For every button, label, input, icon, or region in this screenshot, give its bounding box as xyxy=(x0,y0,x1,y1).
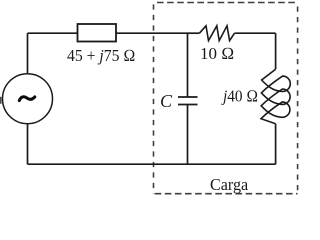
dashed load boundary box: top edge xyxy=(154,2,298,4)
svg-text:45 + j75 Ω: 45 + j75 Ω xyxy=(67,45,135,65)
wire: zigzag to top-right corner xyxy=(235,32,276,34)
wire: capacitor branch upper xyxy=(187,33,189,97)
AC source tilde symbol xyxy=(19,97,35,101)
dashed load boundary box: bottom edge xyxy=(154,193,298,195)
inductor L j40 ohm (loop coil) xyxy=(261,69,290,124)
resistor R 10 ohm (zigzag) xyxy=(199,26,234,41)
wire: bottom rail xyxy=(28,163,276,165)
dashed load boundary box: left edge xyxy=(153,3,155,194)
wire: top rail left segment xyxy=(28,32,78,34)
AC source V1 (circle) xyxy=(3,74,53,124)
wire: left vertical bottom (circle to bottom rail) xyxy=(27,124,29,165)
capacitor C plate bottom xyxy=(178,104,198,106)
wire: inductor to bottom rail xyxy=(275,124,277,164)
svg-text:j40 Ω: j40 Ω xyxy=(221,88,258,106)
svg-text:Carga: Carga xyxy=(210,174,249,194)
wire: capacitor branch lower xyxy=(187,105,189,165)
wire: right vertical down to inductor xyxy=(275,33,277,69)
svg-text:C: C xyxy=(160,91,173,111)
capacitor C plate top xyxy=(178,96,198,98)
svg-text:10 Ω: 10 Ω xyxy=(200,44,234,63)
wire: top rail middle segment (box to node) xyxy=(116,32,188,34)
resistor Z1 (box) xyxy=(78,24,117,42)
wire: node to zigzag resistor xyxy=(188,32,200,34)
scan artifact tick at left margin xyxy=(0,97,2,104)
wire: top-left vertical (source to top rail) xyxy=(27,33,29,74)
dashed load boundary box: right edge xyxy=(297,3,299,194)
